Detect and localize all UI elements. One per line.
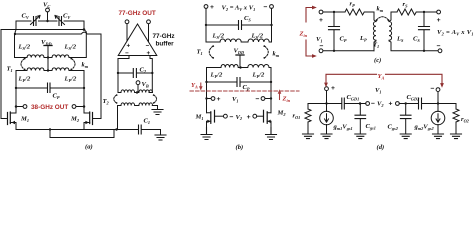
admittance marker YA (d) red	[324, 74, 444, 88]
wire T2 left vertical	[118, 73, 121, 93]
wire rP to LP	[366, 12, 376, 22]
resistor rP	[345, 9, 366, 15]
op-amp 77-GHz buffer triangle	[118, 24, 157, 56]
svg-text:+: +	[127, 43, 131, 50]
svg-text:−: −	[146, 43, 150, 50]
capacitor CGS2	[400, 102, 411, 133]
svg-text:LP/2: LP/2	[252, 72, 265, 79]
svg-text:LS/2: LS/2	[212, 33, 225, 40]
capacitor CGD1	[342, 98, 345, 109]
node V2 top right terminal	[270, 5, 274, 9]
inductor LS/2 left (a)	[27, 55, 48, 58]
svg-text:km: km	[377, 6, 384, 13]
node V1 minus terminal (d)	[436, 88, 440, 105]
svg-text:VDD: VDD	[234, 48, 245, 55]
node V1 plus terminal (d)	[325, 87, 329, 105]
svg-text:C2: C2	[140, 67, 147, 74]
capacitor CS (c)	[419, 12, 430, 52]
svg-text:CS: CS	[244, 15, 251, 22]
inductor LP/2 right (b)	[241, 64, 272, 67]
node VB terminal	[136, 81, 140, 93]
wire d top rail	[308, 103, 456, 105]
node rail A to right tank dot	[83, 28, 86, 31]
svg-text:T1: T1	[7, 66, 13, 73]
svg-text:LS/2: LS/2	[18, 44, 31, 51]
svg-text:VDD: VDD	[41, 39, 52, 46]
ground gm1	[321, 134, 332, 139]
svg-text:T1: T1	[197, 49, 203, 56]
svg-text:77-GHz: 77-GHz	[153, 33, 175, 40]
svg-text:CV: CV	[63, 13, 71, 20]
svg-text:−: −	[431, 86, 435, 93]
capacitor CV right (varactor)	[55, 16, 65, 26]
svg-text:CP: CP	[340, 36, 347, 43]
node c right top terminal	[437, 10, 441, 14]
ground CGS2	[400, 134, 411, 139]
svg-text:+: +	[331, 85, 335, 92]
svg-text:−: −	[437, 43, 441, 50]
wire right primary vertical	[83, 71, 85, 114]
capacitor C1	[118, 125, 161, 134]
node c right bottom terminal	[438, 49, 442, 53]
svg-text:LS/2: LS/2	[64, 44, 77, 51]
wire b right vertical bottom	[270, 68, 272, 113]
node VC terminal	[46, 8, 50, 21]
svg-text:+: +	[217, 96, 221, 103]
svg-text:+: +	[147, 50, 151, 57]
svg-text:−: −	[264, 4, 268, 11]
wire right varactor drop	[83, 21, 85, 30]
svg-text:rO2: rO2	[461, 116, 470, 123]
coupling arc left T1 (a)	[21, 58, 26, 71]
svg-text:+: +	[437, 17, 441, 24]
wire buffer output left	[118, 56, 129, 74]
svg-text:LS: LS	[396, 36, 404, 43]
ground rO1	[303, 134, 314, 139]
node primary center tap	[47, 69, 49, 71]
transistor M1 (a)	[1, 112, 16, 130]
node V1 left terminal (b)	[205, 97, 215, 101]
svg-text:(b): (b)	[236, 144, 244, 151]
svg-text:km: km	[273, 51, 280, 58]
capacitor CP (a)	[15, 83, 85, 93]
wire b left vertical top	[206, 8, 220, 42]
node 38-GHz OUT right terminal	[72, 105, 85, 109]
svg-text:CGD1: CGD1	[347, 94, 360, 101]
svg-text:gm1Vgs1: gm1Vgs1	[333, 124, 353, 131]
svg-text:−: −	[230, 114, 234, 121]
resistor rO1	[305, 104, 311, 134]
svg-text:−: −	[320, 43, 324, 50]
svg-text:77-GHz OUT: 77-GHz OUT	[119, 10, 156, 17]
coupling arc left T2	[114, 94, 118, 103]
svg-text:LP/2: LP/2	[210, 72, 223, 79]
svg-text:M1: M1	[20, 116, 29, 123]
svg-text:Zin: Zin	[299, 31, 308, 38]
svg-text:CV: CV	[22, 13, 30, 20]
svg-text:+: +	[210, 4, 214, 11]
svg-text:V1: V1	[375, 87, 382, 94]
node c port bottom terminal	[319, 49, 323, 53]
capacitor CV left (varactor)	[31, 16, 41, 26]
svg-text:CGD2: CGD2	[407, 94, 421, 101]
svg-text:V2 = AV x V1: V2 = AV x V1	[437, 29, 474, 36]
node V2 minus terminal (d)	[366, 102, 370, 106]
ground gm2	[433, 134, 444, 139]
inductor LP/2 left (b)	[207, 64, 241, 67]
node c CP tap dot	[333, 11, 335, 13]
svg-text:YA: YA	[191, 82, 198, 89]
node tail dots	[49, 128, 118, 130]
current source gm1	[320, 104, 334, 134]
wire LP bottom	[374, 41, 376, 51]
wire rail B (M2 gate cross-coupling)	[15, 32, 101, 118]
capacitor C2	[117, 69, 154, 78]
inductor LS/2 left (b)	[220, 39, 245, 42]
wire tail detour	[50, 130, 114, 138]
inductor LP/2 left (a)	[16, 68, 48, 71]
inductor LS (c)	[389, 22, 392, 41]
wire T2 secondary right to ground	[152, 106, 157, 110]
node c CS tap dot	[423, 11, 425, 13]
svg-text:LP: LP	[359, 35, 367, 42]
svg-text:rP: rP	[350, 1, 356, 8]
node V2 plus terminal (d)	[396, 102, 400, 106]
svg-text:buffer: buffer	[156, 41, 175, 48]
wire rS to terminal	[418, 11, 437, 13]
svg-text:LP/2: LP/2	[64, 76, 77, 83]
svg-text:V2 = AV x V1: V2 = AV x V1	[222, 5, 256, 12]
ground C1	[155, 135, 166, 140]
wire T2 right vertical	[149, 73, 152, 93]
svg-text:CP: CP	[53, 93, 60, 100]
wire b right vertical top	[270, 8, 272, 42]
svg-text:gm2Vgs2: gm2Vgs2	[414, 124, 435, 131]
current source gm2	[431, 104, 445, 134]
transistor M1 (b)	[207, 110, 224, 127]
svg-text:(c): (c)	[374, 57, 381, 64]
svg-text:M2: M2	[70, 116, 80, 123]
transistor M2 (a)	[84, 112, 93, 130]
power VDD (a)	[44, 46, 52, 71]
capacitor CP (b)	[205, 78, 272, 87]
svg-text:−: −	[125, 50, 129, 57]
transformer T2 bottom row	[118, 103, 153, 106]
node secondary center tap	[47, 56, 49, 58]
ground CGS1	[355, 134, 366, 139]
coupling arc km (c)	[376, 17, 390, 21]
ground M2 (b)	[266, 128, 277, 140]
coupling arc left T1 (b)	[209, 45, 214, 59]
wire left primary vertical	[15, 71, 17, 114]
wire LS bottom rail	[389, 41, 438, 51]
coupling arc right km (b)	[263, 45, 268, 59]
resistor rO2	[453, 104, 459, 134]
node center tap dot	[46, 20, 48, 22]
svg-text:Zin: Zin	[282, 96, 291, 103]
node 38-GHz OUT left terminal	[15, 105, 27, 109]
wire b left vertical bottom	[206, 68, 208, 113]
svg-text:Cgs2: Cgs2	[388, 124, 399, 131]
svg-text:V2: V2	[236, 114, 243, 121]
svg-text:C1: C1	[144, 118, 151, 125]
capacitor CP (c)	[329, 12, 340, 52]
svg-text:T1: T1	[373, 42, 379, 49]
coupling arc right T2	[153, 94, 157, 103]
capacitor CS (b)	[205, 21, 273, 30]
svg-text:V1: V1	[232, 96, 239, 103]
svg-text:CS: CS	[413, 36, 420, 43]
wire left secondary vertical	[15, 34, 28, 58]
svg-text:LS/2: LS/2	[251, 33, 264, 40]
node V1 right terminal (b)	[261, 97, 272, 101]
inductor LP (c)	[373, 22, 376, 41]
svg-text:+: +	[247, 114, 251, 121]
power VDD (b)	[236, 55, 244, 69]
coupling arc right km (a)	[70, 58, 75, 71]
svg-text:M1: M1	[195, 114, 204, 121]
ground T2	[152, 110, 163, 115]
node V2 gate left terminal	[224, 114, 228, 118]
wire left varactor drop to rail B	[15, 21, 16, 34]
wire rail A (M1 gate cross-coupling)	[1, 30, 84, 119]
inductor LP/2 right (a)	[48, 68, 84, 71]
resistor rS	[397, 9, 418, 15]
svg-text:+: +	[389, 101, 393, 108]
svg-text:rO1: rO1	[293, 113, 301, 120]
transistor M2 (b)	[257, 110, 271, 127]
svg-text:M2: M2	[277, 110, 287, 117]
wire buffer output right	[150, 56, 152, 74]
wire LS top to rS	[389, 12, 397, 22]
transformer T2 top row	[121, 90, 152, 94]
svg-text:CP: CP	[243, 84, 250, 91]
ground M1 (b)	[201, 128, 212, 140]
svg-text:−: −	[371, 101, 375, 108]
node 77-GHz OUT terminals	[125, 20, 150, 42]
svg-text:V2: V2	[377, 101, 384, 108]
capacitor CGS1	[355, 102, 366, 133]
wire C1 to ground	[160, 130, 162, 135]
wire c top left	[323, 11, 345, 13]
svg-text:(d): (d)	[377, 144, 385, 151]
inductor LS/2 right (b)	[245, 39, 272, 42]
wire varactor center line	[16, 20, 84, 22]
svg-text:VC: VC	[43, 2, 50, 9]
svg-text:rS: rS	[403, 1, 409, 8]
wire tail rail (a)	[16, 129, 118, 131]
impedance marker Zin (c) red	[306, 6, 317, 58]
ground rO2	[451, 134, 462, 139]
capacitor CGD2	[419, 98, 422, 109]
svg-text:+: +	[319, 17, 323, 24]
wire right secondary vertical	[69, 30, 86, 58]
wire T2 secondary left down	[117, 106, 119, 130]
svg-text:T2: T2	[103, 98, 110, 105]
node V2 top left terminal	[204, 5, 208, 9]
svg-text:LP/2: LP/2	[18, 76, 31, 83]
wire c bottom left rail	[323, 50, 374, 52]
svg-text:km: km	[82, 62, 89, 69]
admittance marker YA (b) red dashed	[190, 83, 299, 100]
node V2 gate right terminal	[253, 114, 257, 118]
svg-text:Cgs1: Cgs1	[366, 123, 376, 130]
inductor LS/2 right (a)	[48, 55, 70, 58]
svg-text:YA: YA	[378, 73, 385, 80]
svg-text:−: −	[256, 96, 260, 103]
svg-text:38-GHz OUT: 38-GHz OUT	[31, 104, 68, 111]
node c port top terminal	[319, 10, 323, 14]
svg-text:VB: VB	[142, 81, 149, 88]
svg-text:(a): (a)	[85, 144, 93, 151]
node rail B left tank dot	[14, 33, 16, 35]
